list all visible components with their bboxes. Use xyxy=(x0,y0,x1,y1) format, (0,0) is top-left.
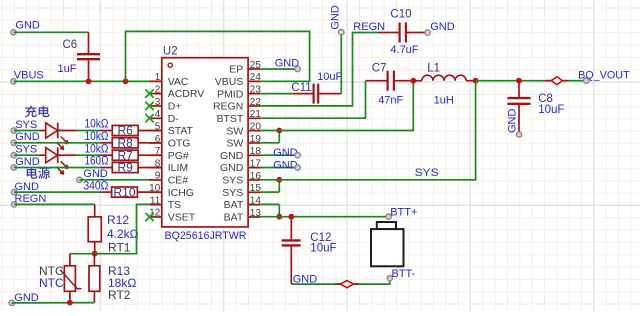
svg-text:GND: GND xyxy=(15,181,40,193)
resistor R12 4.2k (vertical) xyxy=(88,204,101,253)
svg-text:GND: GND xyxy=(220,162,244,174)
svg-text:3: 3 xyxy=(155,97,161,108)
wire GND to NTC/R13 bottoms xyxy=(12,302,95,304)
junction SYS pins xyxy=(276,177,282,183)
svg-text:2: 2 xyxy=(155,84,161,95)
svg-text:R12: R12 xyxy=(107,213,129,227)
svg-text:BTT-: BTT- xyxy=(392,268,416,280)
svg-text:U2: U2 xyxy=(163,45,178,57)
svg-text:11: 11 xyxy=(150,195,161,206)
svg-text:REGN: REGN xyxy=(15,193,47,205)
svg-text:19: 19 xyxy=(250,134,262,145)
svg-text:GND: GND xyxy=(15,131,40,143)
svg-text:GND: GND xyxy=(430,21,455,33)
junction VBUS/pin24 loop xyxy=(123,78,129,84)
wire EP to GND flag xyxy=(260,68,297,70)
svg-text:GND: GND xyxy=(15,20,40,32)
net flag BTT- xyxy=(387,268,416,281)
no-connect X flag on pin 12 xyxy=(145,213,153,221)
pin 22 REGN (right) xyxy=(213,97,261,113)
net flag VBUS xyxy=(11,70,44,84)
svg-text:SW: SW xyxy=(226,138,243,150)
wire TS node to NTC xyxy=(70,253,95,255)
wire LED to resistor xyxy=(76,130,100,132)
svg-text:10uF: 10uF xyxy=(538,104,564,116)
svg-text:D-: D- xyxy=(168,113,180,125)
wire L1 to BQ_VOUT xyxy=(476,80,587,82)
net flag GND (pin 25 EP) xyxy=(275,58,301,72)
wire GND to U2 pin 9 CE# xyxy=(80,179,150,181)
pin 15 SYS (right) xyxy=(222,183,261,199)
svg-text:L1: L1 xyxy=(427,63,440,75)
svg-text:4: 4 xyxy=(155,109,161,120)
net flag SYS row 1 xyxy=(11,119,37,133)
power flag GND (rotated, above C11) xyxy=(330,5,344,35)
svg-text:10uF: 10uF xyxy=(317,71,342,83)
svg-text:24: 24 xyxy=(250,72,262,83)
svg-text:20: 20 xyxy=(250,121,262,132)
wire SYS pin 15 xyxy=(260,191,279,193)
svg-text:REGN: REGN xyxy=(353,21,385,33)
svg-text:GND: GND xyxy=(15,156,40,168)
pin 18 GND (right) xyxy=(220,146,261,162)
power flag GND (top left) xyxy=(11,20,40,35)
pin 4 D- (left) xyxy=(150,109,180,125)
svg-text:10uF: 10uF xyxy=(310,242,336,254)
wire LED to resistor xyxy=(76,154,100,156)
net flag GND (pin 17) xyxy=(273,159,300,171)
svg-text:VAC: VAC xyxy=(168,76,189,88)
wire PMID to C11 xyxy=(260,93,292,95)
svg-text:SYS: SYS xyxy=(15,144,37,156)
inductor L1 1uH xyxy=(413,75,475,81)
pin 3 D+ (left) xyxy=(150,97,182,113)
net flag GND row 2 xyxy=(11,131,40,145)
net flag BQ_VOUT xyxy=(578,69,630,83)
junction C12 tap xyxy=(288,214,294,220)
svg-text:10kΩ: 10kΩ xyxy=(85,119,109,131)
wire SYS to LED xyxy=(14,130,40,132)
net port diamond (BQ_VOUT) xyxy=(545,80,551,82)
svg-text:C11: C11 xyxy=(291,82,311,94)
svg-text:18: 18 xyxy=(250,146,262,157)
svg-text:R9: R9 xyxy=(118,161,134,175)
svg-text:14: 14 xyxy=(250,195,262,206)
net flag REGN (left) xyxy=(11,193,46,207)
pin 13 BAT (right) xyxy=(224,208,262,224)
junction SYS / L1 / C8 xyxy=(473,78,479,84)
no-connect X flag on pin 3 xyxy=(145,102,153,110)
svg-text:1: 1 xyxy=(155,72,161,83)
svg-text:4.2kΩ: 4.2kΩ xyxy=(107,227,139,241)
svg-text:BAT: BAT xyxy=(224,199,244,211)
svg-text:VBUS: VBUS xyxy=(14,70,44,82)
capacitor C12 10uF xyxy=(282,217,301,284)
svg-text:SYS: SYS xyxy=(222,175,243,187)
pin 23 PMID (right) xyxy=(217,84,261,100)
wire SYS to LED xyxy=(14,154,40,156)
junction SW pins xyxy=(276,128,282,134)
svg-text:160Ω: 160Ω xyxy=(85,156,109,168)
wire GND to R10 xyxy=(14,191,100,193)
svg-text:GND: GND xyxy=(273,147,298,159)
svg-text:4.7uF: 4.7uF xyxy=(390,44,418,56)
svg-text:47nF: 47nF xyxy=(378,95,403,107)
pin 11 TS (left) xyxy=(150,195,182,211)
wire REGN pin 22 up to C10 xyxy=(260,33,378,106)
svg-text:BTST: BTST xyxy=(216,113,243,125)
no-connect X flag on pin 2 xyxy=(145,89,153,97)
wire REGN to R12 top xyxy=(14,203,95,205)
svg-text:ICHG: ICHG xyxy=(168,187,194,199)
LED D1 (charging indicator) xyxy=(40,123,77,150)
svg-text:PMID: PMID xyxy=(217,88,244,100)
net flag GND (pin 18) xyxy=(273,147,300,159)
pin 7 PG# (left) xyxy=(150,146,189,162)
net flag BTT+ xyxy=(386,206,418,219)
pin 1 VAC (left) xyxy=(150,72,189,88)
svg-text:C6: C6 xyxy=(63,39,78,51)
svg-text:15: 15 xyxy=(250,183,262,194)
wire BAT pins 14-13 vertical xyxy=(278,204,280,216)
pin 24 VBUS (right) xyxy=(215,72,262,88)
svg-text:RT1: RT1 xyxy=(108,241,131,255)
svg-text:D+: D+ xyxy=(168,101,182,113)
thermistor NTC (vertical, with diagonal) xyxy=(60,254,81,303)
wire VBUS to U2 pin 1 VAC xyxy=(14,80,150,82)
wire SW pin 19 xyxy=(260,142,279,144)
svg-text:ILIM: ILIM xyxy=(168,162,188,174)
svg-text:GND: GND xyxy=(273,159,298,171)
svg-text:10kΩ: 10kΩ xyxy=(85,143,109,155)
wire VBUS loop to U2 pin 24 xyxy=(126,31,310,81)
op-amp / IC U2 BQ25616JRTWR body xyxy=(162,58,248,227)
svg-text:GND: GND xyxy=(330,5,342,30)
svg-text:10kΩ: 10kΩ xyxy=(85,131,109,143)
svg-text:R10: R10 xyxy=(113,185,135,199)
wire GND to resistor xyxy=(14,167,101,169)
svg-text:340Ω: 340Ω xyxy=(83,181,108,193)
pin 2 ACDRV (left) xyxy=(150,84,205,100)
svg-text:GND: GND xyxy=(220,150,244,162)
wire pin 17 to GND flag xyxy=(260,167,297,169)
svg-text:CE#: CE# xyxy=(168,175,189,187)
svg-text:SYS: SYS xyxy=(15,119,37,131)
net flag GND row 5 (CE#) xyxy=(77,168,108,182)
junction SW / C7 / L1 xyxy=(410,78,416,84)
wire SW pin 20 to L1 node xyxy=(260,81,413,131)
wire SW pins 19-20 vertical xyxy=(278,131,280,143)
text power (chinese) xyxy=(27,167,50,179)
power flag GND (right of C10) xyxy=(425,21,455,35)
wire BTST pin 21 up to C7 xyxy=(260,81,365,119)
pin 17 GND (right) xyxy=(220,158,261,174)
net flag GND row 4 xyxy=(11,156,40,170)
text charging (chinese) xyxy=(25,106,49,118)
wire BAT pin 14 xyxy=(260,203,279,205)
svg-text:13: 13 xyxy=(250,208,262,219)
svg-text:23: 23 xyxy=(250,84,262,95)
svg-text:BTT+: BTT+ xyxy=(390,206,417,218)
svg-text:9: 9 xyxy=(155,171,161,182)
svg-text:EP: EP xyxy=(229,64,243,76)
svg-text:VSET: VSET xyxy=(168,212,196,224)
svg-text:BQ_VOUT: BQ_VOUT xyxy=(578,69,630,81)
resistor R10 340ohm xyxy=(101,185,162,199)
power flag GND (bottom left) xyxy=(9,292,39,306)
svg-text:25: 25 xyxy=(250,60,262,71)
svg-text:21: 21 xyxy=(250,109,262,120)
svg-text:BQ25616JRTWR: BQ25616JRTWR xyxy=(165,230,247,242)
svg-text:TS: TS xyxy=(168,199,181,211)
svg-text:SYS: SYS xyxy=(222,187,243,199)
svg-text:REGN: REGN xyxy=(213,101,243,113)
no-connect X flag on pin 4 xyxy=(145,114,153,122)
svg-text:PG#: PG# xyxy=(168,150,189,162)
junction TS node xyxy=(92,251,98,257)
svg-text:NTC: NTC xyxy=(39,276,64,290)
svg-text:RT2: RT2 xyxy=(108,288,131,302)
pin 25 EP (right) xyxy=(229,60,261,76)
capacitor C10 4.7uF xyxy=(378,23,428,43)
svg-text:17: 17 xyxy=(250,158,262,169)
battery symbol (connector) xyxy=(371,222,404,266)
pin 20 SW (right) xyxy=(226,121,261,137)
wire GND flag to C6 top xyxy=(14,31,89,33)
wire SYS pin 16 to L1 output node xyxy=(260,81,475,180)
pin 8 ILIM (left) xyxy=(150,158,189,174)
pin 21 BTST (right) xyxy=(216,109,261,125)
pin 10 ICHG (left) xyxy=(149,183,194,199)
resistor R13 18k (vertical) xyxy=(89,254,100,303)
resistor R6 10k&#x3A9; xyxy=(101,124,162,138)
pin 14 BAT (right) xyxy=(224,195,262,211)
capacitor C11 10uF xyxy=(293,84,342,104)
wire TS node to U2 pin 11 TS xyxy=(95,204,150,253)
capacitor C8 10uF xyxy=(508,81,531,135)
pin 9 CE# (left) xyxy=(150,171,189,187)
wire pin 18 to GND flag xyxy=(260,154,297,156)
pin 19 SW (right) xyxy=(226,134,261,150)
svg-text:1uH: 1uH xyxy=(434,95,454,107)
svg-text:C8: C8 xyxy=(538,93,553,105)
resistor R7 10k&#x3A9; xyxy=(101,148,162,162)
svg-text:C7: C7 xyxy=(372,63,387,75)
capacitor C6 1uF xyxy=(58,32,101,81)
svg-text:SYS: SYS xyxy=(415,167,439,179)
net port diamond (BTT-) xyxy=(335,283,341,285)
svg-text:OTG: OTG xyxy=(168,138,191,150)
svg-text:1uF: 1uF xyxy=(58,63,77,75)
power flag GND (below C8, rotated) xyxy=(507,109,522,138)
net flag GND row 6 (ICHG) xyxy=(11,181,39,195)
svg-text:SW: SW xyxy=(226,125,243,137)
junction BAT pins xyxy=(276,214,282,220)
pin 6 OTG (left) xyxy=(150,134,191,150)
junction VBUS/C6 xyxy=(86,78,92,84)
resistor R9 160&#x3A9; xyxy=(101,161,162,175)
net flag SYS row 3 xyxy=(11,144,37,158)
capacitor C7 47nF xyxy=(366,71,414,91)
svg-text:ACDRV: ACDRV xyxy=(168,88,205,100)
junction C8 tap xyxy=(516,78,522,84)
wire C12 GND to BTT- xyxy=(291,278,390,284)
wire SYS pins 15-16 vertical xyxy=(278,180,280,192)
pin 12 VSET (left) xyxy=(149,208,196,224)
resistor R8 10k&#x3A9; xyxy=(101,136,162,150)
svg-text:STAT: STAT xyxy=(168,125,194,137)
pin 16 SYS (right) xyxy=(222,171,261,187)
wire C11 to GND flag (vertical) xyxy=(340,32,342,94)
svg-text:22: 22 xyxy=(250,97,262,108)
wire GND to resistor xyxy=(14,142,101,144)
svg-text:C10: C10 xyxy=(390,8,411,20)
svg-text:BAT: BAT xyxy=(224,212,244,224)
svg-text:GND: GND xyxy=(83,168,108,180)
svg-text:VBUS: VBUS xyxy=(215,76,244,88)
svg-text:16: 16 xyxy=(250,171,262,182)
pin 5 STAT (left) xyxy=(150,121,194,137)
junction NTC bottom xyxy=(67,300,73,306)
wire BAT pin 13 to BTT+ xyxy=(260,216,388,218)
svg-text:GND: GND xyxy=(507,109,519,134)
LED D3 (charging indicator) xyxy=(40,147,77,174)
